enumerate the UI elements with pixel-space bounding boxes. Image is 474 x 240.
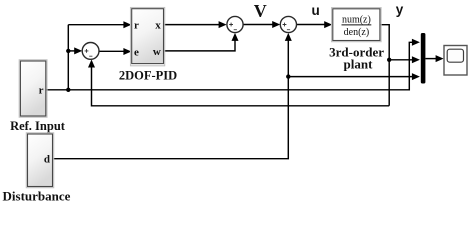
sum S1 (error sum) — [82, 43, 99, 60]
signal label y — [396, 2, 404, 17]
wire: sum S3 output u to plant input — [297, 21, 333, 28]
label: Disturbance — [3, 189, 71, 204]
svg-text:Disturbance: Disturbance — [3, 189, 71, 204]
svg-text:e: e — [134, 47, 139, 59]
block: Ref. Input source — [19, 60, 47, 117]
wire: sum S2 output V to sum S3 — [243, 21, 280, 28]
wire: plant output y down to feedback row — [380, 25, 389, 106]
sum S3 (u sum) — [280, 16, 296, 32]
svg-text:r: r — [39, 85, 44, 97]
mux bar — [421, 33, 426, 84]
wire: main r line from Ref. Input to mux riser — [46, 39, 420, 90]
wire: d line from Disturbance up to sum S3 bottom — [53, 33, 292, 159]
block: Scope — [444, 46, 467, 76]
wire: feedback y into sum S1 bottom — [88, 60, 389, 106]
wire: r branch vertical from top corner down to r-line — [67, 25, 69, 90]
svg-text:r: r — [134, 20, 139, 32]
node: junction dot on y vertical — [387, 58, 391, 62]
block: Disturbance source — [26, 133, 53, 188]
svg-text:d: d — [44, 153, 50, 165]
signal label u — [312, 3, 320, 18]
label: Ref. Input — [10, 119, 66, 133]
svg-text:num(z): num(z) — [342, 14, 371, 25]
wire: r branch to 2DOF-PID r input — [68, 21, 131, 28]
wire: 2DOF-PID w output up into sum S2 bottom — [164, 33, 239, 51]
svg-text:2DOF-PID: 2DOF-PID — [119, 68, 177, 82]
svg-text:w: w — [153, 46, 161, 58]
svg-text:u: u — [312, 3, 320, 18]
svg-text:den(z): den(z) — [344, 27, 370, 38]
label: 2DOF-PID — [119, 68, 177, 82]
node: junction dot on d vertical — [286, 74, 290, 78]
wire: mux output to scope — [425, 55, 443, 62]
svg-text:x: x — [155, 20, 161, 32]
node: junction dot on r branch at sum row — [66, 49, 70, 53]
wire: sum S1 output to 2DOF-PID e input — [99, 48, 131, 55]
svg-text:V: V — [254, 1, 267, 21]
label: 3rd-order plant — [329, 45, 384, 72]
wire: 2DOF-PID x output to sum S2 — [164, 21, 227, 28]
svg-text:plant: plant — [344, 57, 374, 72]
wire: y branch to mux input 2 — [389, 56, 420, 63]
svg-text:y: y — [396, 2, 404, 17]
block: 2DOF-PID controller — [131, 8, 165, 66]
node: junction dot r line / r branch — [66, 88, 70, 92]
signal label V — [254, 1, 267, 21]
block: 3rd-order plant transfer function — [332, 8, 382, 42]
wire: d branch to mux input 3 — [288, 73, 420, 80]
svg-text:Ref. Input: Ref. Input — [10, 119, 66, 133]
sum S2 (V sum) — [227, 16, 243, 32]
wire: r branch to sum S1 plus input — [68, 47, 82, 54]
